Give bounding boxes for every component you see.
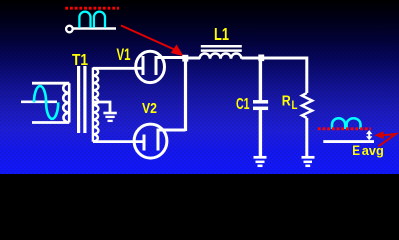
wire RL to ground: [305, 118, 308, 156]
output waveform icon: average dashed line: [318, 127, 371, 130]
node B: C1 junction: [258, 55, 264, 62]
top waveform icon: peak reference dashed line: [65, 7, 119, 10]
ground (RL): [302, 156, 315, 159]
transformer T1 secondary winding: [93, 68, 99, 142]
wire T1 primary top lead: [32, 82, 69, 85]
output waveform icon: ripple humps: [332, 118, 361, 129]
V2 cathode: [143, 135, 146, 151]
L1 core bars: [201, 45, 242, 48]
wire L1 to C1 node: [242, 57, 262, 60]
V1 cathode: [142, 56, 145, 75]
V1 plate lead: [155, 56, 186, 59]
top waveform icon: terminal ring: [66, 26, 73, 33]
node A: junction at tube outputs: [182, 55, 188, 62]
wire C1 to ground: [259, 110, 262, 156]
ground (C1): [254, 156, 267, 159]
svg-text:L1: L1: [214, 24, 229, 44]
svg-text:avg: avg: [362, 144, 384, 158]
top waveform icon: full-wave humps: [79, 12, 105, 28]
svg-text:E: E: [352, 143, 360, 158]
wire T1 primary bottom lead: [32, 121, 69, 124]
V1 plate: [155, 56, 158, 75]
wire rail to L1: [185, 57, 200, 60]
svg-text:V2: V2: [142, 100, 157, 117]
output waveform icon: zero axis: [323, 140, 374, 143]
wire node to C1: [259, 58, 262, 100]
output waveform icon: Eavg double arrow: [368, 133, 370, 138]
svg-text:C1: C1: [236, 96, 250, 113]
inductor L1 winding: [200, 53, 242, 58]
AC source sine axis: [21, 101, 57, 104]
V2 plate lead: [157, 129, 186, 132]
top waveform icon: baseline: [73, 27, 116, 30]
ground (center tap): [103, 112, 116, 115]
wire secondary top to V1 cathode: [93, 67, 143, 70]
transformer T1 core: [77, 66, 80, 133]
wire to RL corner: [261, 57, 307, 60]
V2 plate: [157, 129, 160, 151]
tube V2 envelope: [134, 124, 167, 158]
wire V2 plate up to output node: [184, 58, 187, 131]
wire corner to RL: [305, 57, 308, 94]
tube V1 envelope: [136, 51, 165, 82]
transformer T1 primary winding: [63, 83, 69, 122]
C1 top plate: [253, 100, 268, 104]
svg-text:V1: V1: [117, 46, 131, 64]
resistor RL zigzag: [302, 93, 312, 118]
output red arrow: [379, 134, 396, 146]
C1 bottom plate: [253, 107, 268, 111]
svg-text:L: L: [292, 98, 298, 112]
wire secondary bottom to V2 cathode: [93, 140, 144, 143]
wire T1 center tap: [93, 102, 110, 112]
AC source sine wave: [34, 86, 58, 119]
red arrow to output node: [121, 26, 176, 51]
svg-text:R: R: [282, 94, 291, 110]
